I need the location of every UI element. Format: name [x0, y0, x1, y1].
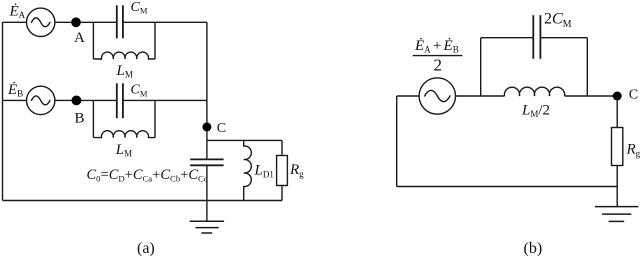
capacitor C_M (row A)	[117, 5, 123, 38]
wire R_g top (b)	[616, 96, 618, 128]
wire node B to capacitor C_M bottom row	[93, 99, 116, 101]
wire right bus (a)	[206, 22, 208, 159]
wire tank to right bus (row A)	[155, 21, 207, 23]
wire node C branch to R_g (a)	[207, 139, 282, 141]
wire node A to capacitor C_M top row	[93, 21, 116, 23]
resistor R_g (b)	[612, 128, 623, 166]
wire loop right vertical (b)	[586, 38, 588, 96]
node B	[72, 96, 82, 106]
wire source to inductor (b)	[456, 95, 505, 97]
inductor L_M (row A)	[93, 52, 155, 59]
svg-text:2CM: 2CM	[544, 10, 572, 29]
wire capacitor C_M to tank right (row A)	[123, 21, 155, 23]
wire source E_B to node B	[55, 99, 94, 101]
capacitor 2C_M	[533, 15, 540, 59]
AC source (E_A+E_B)/2	[419, 78, 455, 114]
svg-text:ĖA+ĖB: ĖA+ĖB	[414, 38, 459, 55]
wire rail to source E_B	[3, 99, 27, 101]
wire capacitor C_M to tank right (row B)	[123, 99, 155, 101]
wire tank to right bus (row B)	[155, 99, 207, 101]
wire R_g bottom (a)	[281, 186, 283, 201]
wire tank right vertical (row A)	[154, 22, 156, 59]
fraction bar	[413, 55, 463, 57]
svg-text:C: C	[217, 121, 226, 136]
svg-text:LM/2: LM/2	[521, 102, 550, 119]
svg-text:ĖB: ĖB	[7, 82, 23, 99]
capacitor C_0	[190, 159, 223, 165]
svg-text:LM: LM	[115, 142, 132, 159]
inductor L_M/2	[504, 87, 564, 96]
wire left rail (b)	[396, 96, 398, 187]
wire to ground (b)	[616, 187, 618, 207]
svg-text:A: A	[74, 30, 85, 46]
capacitor C_M (row B)	[117, 83, 123, 118]
svg-text:ĖA: ĖA	[9, 3, 26, 20]
wire bottom rail (a)	[3, 200, 283, 202]
wire rail to source (b)	[397, 95, 419, 97]
inductor L_M (row B)	[93, 131, 155, 138]
node C (a)	[202, 122, 211, 131]
resistor R_g (a)	[277, 156, 288, 186]
wire loop top right (b)	[540, 37, 587, 39]
wire left rail (a)	[2, 22, 4, 200]
wire inductor to node C (b)	[565, 95, 618, 97]
svg-text:(a): (a)	[137, 240, 155, 256]
svg-text:C: C	[629, 88, 638, 103]
AC source E_B	[27, 86, 55, 114]
svg-text:CM: CM	[131, 83, 148, 99]
wire tank left vertical (row B)	[92, 100, 94, 137]
node C (b)	[613, 92, 622, 101]
svg-text:CM: CM	[131, 0, 148, 16]
wire rail to source E_A	[3, 21, 27, 23]
AC source E_A	[27, 8, 55, 36]
wire source E_A to node A	[55, 21, 94, 23]
wire R_g top (a)	[281, 140, 283, 155]
node A	[71, 17, 81, 27]
wire tank left vertical (row A)	[92, 22, 94, 59]
wire loop left vertical (b)	[480, 38, 482, 96]
svg-text:(b): (b)	[524, 240, 543, 256]
svg-text:LM: LM	[116, 63, 133, 80]
wire tank right vertical (row B)	[154, 100, 156, 137]
ground (b)	[595, 207, 639, 222]
svg-text:LD1: LD1	[254, 163, 274, 180]
wire loop top left (b)	[481, 37, 534, 39]
wire capacitor C_0 to ground (a)	[206, 165, 208, 221]
svg-text:Rg: Rg	[626, 142, 640, 159]
svg-text:B: B	[75, 111, 85, 127]
svg-text:Rg: Rg	[289, 162, 304, 179]
inductor L_D1	[244, 140, 252, 200]
svg-text:C0=CD+CCa+CCb+CCc: C0=CD+CCa+CCb+CCc	[87, 167, 208, 184]
ground (a)	[190, 221, 224, 233]
svg-text:2: 2	[434, 56, 443, 75]
wire R_g bottom (b)	[616, 166, 618, 187]
wire bottom rail (b)	[397, 186, 618, 188]
